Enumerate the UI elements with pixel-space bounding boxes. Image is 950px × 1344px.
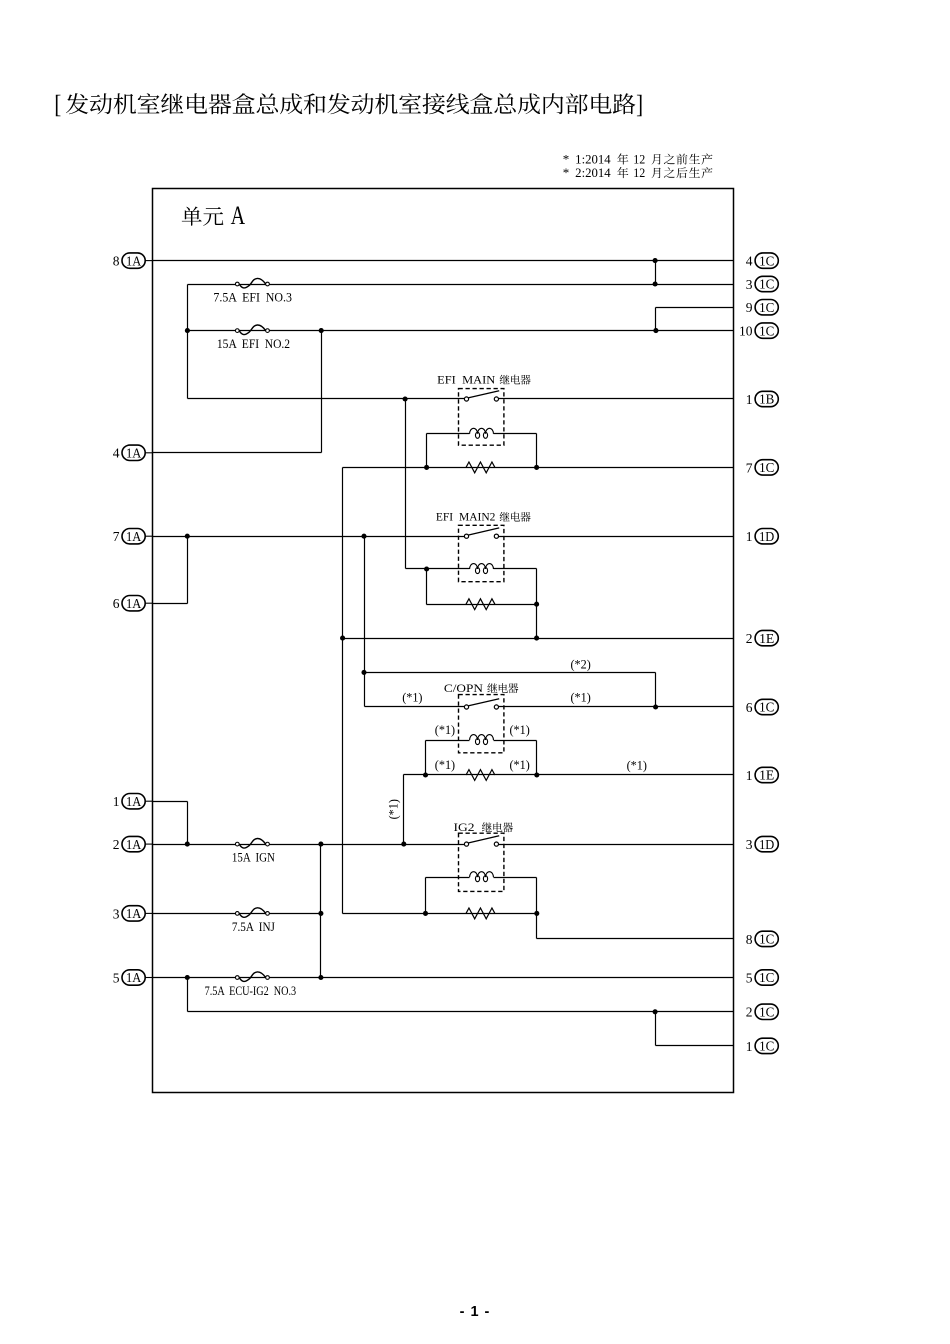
wire 4 1A feeder [153, 452, 322, 454]
svg-text:4: 4 [746, 254, 753, 269]
svg-text:1: 1 [113, 794, 120, 809]
svg-text:10: 10 [739, 324, 753, 339]
junction EFI NO.2 row left [185, 328, 190, 333]
svg-text:5: 5 [113, 970, 120, 985]
relay EFI MAIN coil [470, 428, 494, 433]
wire EFI MAIN2 resistor row [427, 604, 537, 606]
wire 2 1E row [343, 638, 734, 640]
relay IG2 outline [459, 833, 504, 891]
wire 1 1C branch [655, 1012, 657, 1046]
svg-text:1C: 1C [759, 323, 774, 338]
relay EFI MAIN contacts [464, 397, 468, 401]
wire drop x=364 (7 1A row to C/OPN row) [364, 537, 366, 707]
relay EFI MAIN2 coil [470, 564, 494, 569]
svg-text:2:2014: 2:2014 [575, 166, 611, 180]
junction on top rail at x=655 [653, 258, 658, 263]
relay IG2 contacts [464, 842, 468, 846]
svg-text:1A: 1A [126, 253, 142, 268]
wire 1 1A feeder [153, 801, 188, 803]
svg-text:2: 2 [113, 837, 120, 852]
svg-text:*: * [563, 151, 570, 166]
svg-text:(*1): (*1) [435, 758, 455, 772]
svg-text:5: 5 [746, 970, 753, 985]
wire EFI MAIN2 coil right lead [494, 568, 537, 570]
svg-text:1:2014: 1:2014 [575, 152, 611, 166]
svg-text:7.5A EFI NO.3: 7.5A EFI NO.3 [213, 291, 292, 305]
wire drop x=403.8 (1E row to IG2 row) [403, 775, 405, 845]
wire C/OPN coil right lead [494, 740, 537, 742]
junction box 单元 A outline [153, 189, 734, 1093]
junction INJ row at x=321 [318, 911, 323, 916]
svg-text:A: A [231, 201, 246, 230]
junction 9 1C branch on 10 1C row [653, 328, 658, 333]
wire EFI MAIN2 coil left lead [427, 568, 470, 570]
svg-text:(*2): (*2) [571, 658, 591, 672]
wire EFI MAIN switch row to 1 1B [188, 398, 465, 400]
wire fuse EFI NO.2 row to 10 1C [188, 330, 734, 332]
svg-text:(*1): (*1) [435, 723, 455, 737]
junction C/OPN resistor left [423, 772, 428, 777]
fuse 15A IGN [235, 842, 239, 846]
wire C/OPN switch row to 6 1C [365, 706, 465, 708]
wire EFI MAIN2 coil tap link [405, 399, 407, 569]
wire fuse EFI NO.3 row to 3 1C [188, 284, 734, 286]
svg-text:1C: 1C [759, 300, 774, 315]
wire left bus fuse column [187, 285, 189, 399]
wire EFI MAIN coil right lead [494, 433, 537, 435]
svg-text:(*1): (*1) [510, 723, 530, 737]
resistor EFI MAIN2 shunt [466, 599, 495, 610]
label title 发动机室继电器盒总成和发动机室接线盒总成内部电路 [56, 93, 642, 116]
junction IG2 resistor right [534, 911, 539, 916]
wire 6 1A feeder [153, 603, 188, 605]
junction EFI MAIN resistor left [424, 465, 429, 470]
junction IG2 row at x=403.8 [401, 842, 406, 847]
svg-text:1: 1 [746, 1039, 753, 1054]
svg-text:6: 6 [113, 596, 120, 611]
svg-text:1C: 1C [759, 700, 774, 715]
svg-text:7.5A ECU-IG2 NO.3: 7.5A ECU-IG2 NO.3 [205, 984, 297, 998]
svg-text:1E: 1E [759, 768, 774, 783]
svg-text:12: 12 [633, 166, 645, 180]
label 单元 A [182, 207, 224, 226]
junction 7 1A row at x=364 [361, 534, 366, 539]
wire 7 1A to 1 1D row [153, 536, 465, 538]
wire 2 1C row [187, 978, 189, 1012]
junction C/OPN resistor right [534, 772, 539, 777]
relay IG2 coil [470, 872, 494, 877]
junction 5 1A row at x=187 [185, 975, 190, 980]
svg-text:(*1): (*1) [402, 690, 422, 704]
svg-text:2: 2 [746, 631, 753, 646]
fuse 15A EFI NO.2 [235, 329, 239, 333]
junction IG2 resistor left [423, 911, 428, 916]
svg-text:1A: 1A [126, 837, 142, 852]
svg-text:4: 4 [113, 446, 120, 461]
svg-text:3: 3 [746, 837, 753, 852]
wire EFI MAIN coil left lead [427, 433, 470, 435]
wire IG2 coil left lead [426, 877, 470, 879]
svg-text:- 1 -: - 1 - [460, 1304, 491, 1320]
svg-text:C/OPN: C/OPN [444, 682, 484, 695]
svg-text:1B: 1B [759, 392, 774, 407]
svg-text:1C: 1C [759, 460, 774, 475]
junction 5 1A row at x=321 [318, 975, 323, 980]
svg-text:1C: 1C [759, 1039, 774, 1054]
svg-text:1D: 1D [759, 837, 774, 852]
relay EFI MAIN2 outline [459, 525, 504, 581]
junction *2 branch start [361, 670, 366, 675]
junction EFI MAIN resistor right [534, 465, 539, 470]
svg-text:(*1): (*1) [510, 758, 530, 772]
wire IG2 coil right lead [494, 877, 537, 879]
relay EFI MAIN2 contacts [464, 534, 468, 538]
svg-text:*: * [563, 165, 570, 180]
svg-text:1: 1 [746, 529, 753, 544]
resistor EFI MAIN shunt [466, 462, 495, 473]
wire 1 1E resistor row [404, 774, 734, 776]
svg-text:15A EFI NO.2: 15A EFI NO.2 [217, 337, 290, 351]
wire 2 1A to 3 1D row (IG2 switch row) [153, 844, 465, 846]
fuse 7.5A EFI NO.3 [235, 282, 239, 286]
wire drop x=321 (IGN row to ECU-IG2 row) [320, 845, 322, 978]
resistor IG2 shunt [466, 908, 495, 919]
wire 8 1C branch [537, 938, 734, 940]
svg-text:7: 7 [113, 529, 120, 544]
svg-text:3: 3 [746, 277, 753, 292]
svg-text:1D: 1D [759, 529, 774, 544]
svg-text:EFI MAIN: EFI MAIN [437, 375, 495, 387]
junction EFI NO.2 row at x=321 [319, 328, 324, 333]
junction 2 1C row at x=655 [653, 1009, 658, 1014]
svg-text:8: 8 [113, 254, 120, 269]
svg-text:1A: 1A [126, 906, 142, 921]
resistor C/OPN shunt [466, 770, 495, 781]
svg-text:1E: 1E [759, 631, 774, 646]
wire 8 1A to 4 1C (top rail) [153, 260, 734, 262]
svg-text:(*1): (*1) [627, 758, 647, 772]
svg-text:1A: 1A [126, 446, 142, 461]
fuse 7.5A ECU-IG2 NO.3 [235, 976, 239, 980]
junction EFI MAIN coil tap [403, 396, 408, 401]
fuse 7.5A INJ [235, 912, 239, 916]
svg-text:2: 2 [746, 1005, 753, 1020]
svg-text:(*1): (*1) [387, 799, 401, 819]
wire 5 1A to 5 1C row [153, 977, 734, 979]
relay C/OPN contacts [464, 705, 468, 709]
vertical link 4 1C to 3 1C [655, 261, 657, 285]
svg-text:1C: 1C [759, 932, 774, 947]
svg-text:1A: 1A [126, 794, 142, 809]
svg-text:6: 6 [746, 700, 753, 715]
junction IG2 row at x=187 [185, 842, 190, 847]
junction EFI MAIN2 resistor right [534, 602, 539, 607]
relay C/OPN coil [470, 735, 494, 740]
wire 3 1A INJ row left segment [153, 913, 321, 915]
svg-text:1: 1 [746, 768, 753, 783]
svg-text:1: 1 [746, 392, 753, 407]
svg-text:1A: 1A [126, 596, 142, 611]
wire drop x=342.6 (7 1C row to INJ row) [342, 468, 344, 914]
junction *2 branch on 6 1C row [653, 704, 658, 709]
svg-text:1C: 1C [759, 970, 774, 985]
svg-text:9: 9 [746, 300, 753, 315]
svg-text:1C: 1C [759, 277, 774, 292]
svg-text:7.5A INJ: 7.5A INJ [232, 920, 275, 934]
junction IG2 row at x=321 [318, 842, 323, 847]
relay EFI MAIN outline [459, 389, 504, 446]
wire C/OPN coil left lead [426, 740, 470, 742]
svg-text:8: 8 [746, 932, 753, 947]
wire 7 1C resistor row [343, 467, 734, 469]
svg-text:1A: 1A [126, 970, 142, 985]
svg-text:IG2: IG2 [454, 821, 475, 834]
relay C/OPN outline [459, 695, 504, 753]
wire *2 branch [365, 672, 656, 674]
wire 9 1C branch [656, 307, 734, 309]
junction 2 1E row at x=536 [534, 636, 539, 641]
svg-text:1C: 1C [759, 253, 774, 268]
junction 2 1E row at x=342 [340, 636, 345, 641]
svg-text:3: 3 [113, 906, 120, 921]
svg-text:12: 12 [633, 152, 645, 166]
junction EFI MAIN2 coil left [424, 566, 429, 571]
svg-text:1A: 1A [126, 529, 142, 544]
junction on EFI NO.3 row at x=655 [653, 281, 658, 286]
svg-text:1C: 1C [759, 1005, 774, 1020]
svg-text:7: 7 [746, 460, 753, 475]
svg-text:(*1): (*1) [571, 690, 591, 704]
svg-text:15A IGN: 15A IGN [232, 851, 275, 865]
svg-text:EFI MAIN2: EFI MAIN2 [436, 512, 496, 524]
wire IG2 resistor row [343, 913, 537, 915]
junction 7 1A row at x=187 [185, 534, 190, 539]
